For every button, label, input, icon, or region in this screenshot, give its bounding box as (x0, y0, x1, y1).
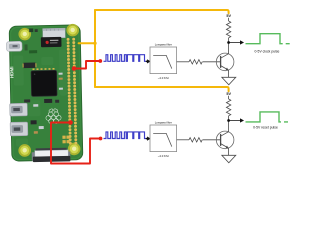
svg-text:5V: 5V (226, 92, 231, 96)
wire: yellow bottom rail to 5V of reset circuit (95, 87, 229, 91)
microSD card slot (43, 28, 66, 38)
wire: Q1 collector up to node (228, 43, 230, 54)
svg-text:HDMI: HDMI (9, 66, 14, 78)
wire: yellow top rail to 5V of clock circuit (95, 10, 229, 13)
wire: bottom filter output to base resistor (177, 139, 189, 141)
svg-text:~4.0 Khz: ~4.0 Khz (158, 76, 170, 80)
ground (bottom circuit) (222, 155, 236, 163)
wire: top base resistor to Q1 base (203, 61, 221, 63)
op-amp block: Lowpass filter U2 (bottom) (150, 125, 177, 152)
transistor Q2 (NPN, bottom) (216, 131, 234, 149)
pcb trace texture (13, 50, 68, 147)
resistor R2 (top base resistor) (189, 60, 202, 64)
wire: top filter output to base resistor (177, 61, 189, 63)
small IC above SoC (23, 63, 35, 69)
op-amp block: Lowpass filter U1 (top) (150, 47, 177, 74)
svg-text:Lowpass filter: Lowpass filter (155, 121, 172, 125)
micro USB port 1 (USB) (10, 103, 28, 116)
mounting hole top-right (66, 24, 79, 37)
wire: Q2 emitter down to ground (228, 148, 230, 155)
mounting hole bottom-left (18, 144, 31, 157)
arrow into bottom lowpass filter (147, 137, 150, 140)
mini HDMI connector (6, 41, 22, 51)
passives right of SoC (59, 73, 63, 75)
svg-text:0-5V clock pulse: 0-5V clock pulse (255, 49, 280, 53)
waveform: PWM input (bottom, blue) (104, 132, 147, 139)
node: dot at bottom waveform end (146, 138, 148, 140)
node: red dot at bottom waveform start (99, 137, 103, 141)
wire: Q2 collector up to node (228, 121, 230, 132)
GPIO header pads column B (74, 39, 76, 146)
node A: top output node (227, 41, 230, 44)
svg-text:Lowpass filter: Lowpass filter (155, 43, 172, 47)
svg-text:5V: 5V (226, 14, 231, 18)
svg-text:0-5V reset pulse: 0-5V reset pulse (253, 126, 278, 130)
wire: yellow vertical bus (94, 10, 96, 87)
resistor R3 (bottom collector pull-up) (226, 96, 230, 121)
Raspberry Pi Zero board (6, 24, 83, 163)
wire: yellow 5V jumper from GPIO pin (79, 42, 95, 44)
GPIO header pads column A (68, 39, 70, 146)
waveform: PWM input (top, blue) (104, 55, 147, 62)
node: red pin dot bottom (68, 120, 73, 125)
wire: Q1 emitter down to ground (228, 70, 230, 77)
arrow into top lowpass filter (147, 60, 150, 63)
mounting hole top-left (18, 28, 31, 41)
waveform: reset output pulse (bottom, green) (246, 112, 289, 122)
microSD card (SanDisk) (41, 37, 62, 47)
wire: red PWM jumper (bottom, GPIO pin to reset chain) (51, 123, 101, 164)
node: dot at top waveform end (146, 61, 148, 63)
transistor Q1 (NPN, top) (216, 53, 234, 71)
resistor R1 (top collector pull-up) (226, 18, 230, 43)
composite video pads (62, 136, 65, 139)
mounting hole bottom-right (68, 142, 81, 155)
arrow to bottom output pulse (229, 119, 244, 122)
node: red pin dot top (72, 66, 77, 71)
resistor R4 (bottom base resistor) (189, 138, 202, 142)
wire: red PWM jumper (top, GPIO pin to clock chain) (74, 61, 100, 69)
Raspberry Pi silkscreen logo (46, 108, 62, 124)
node: red dot at top waveform start (98, 59, 102, 63)
camera connector (32, 148, 71, 162)
wire: bottom base resistor to Q2 base (203, 139, 221, 141)
small parts near SD slot (29, 28, 33, 32)
waveform: clock output pulse (top, green) (246, 34, 290, 44)
node B: bottom output node (227, 119, 230, 122)
arrow to top output pulse (229, 41, 244, 44)
svg-text:~4.0 Khz: ~4.0 Khz (158, 154, 170, 158)
ground (top circuit) (222, 77, 236, 85)
SoC chip (31, 70, 57, 96)
pads row above SoC (32, 68, 54, 70)
micro USB port 2 (PWR) (10, 122, 28, 136)
junction: yellow wire at pin (93, 42, 96, 45)
